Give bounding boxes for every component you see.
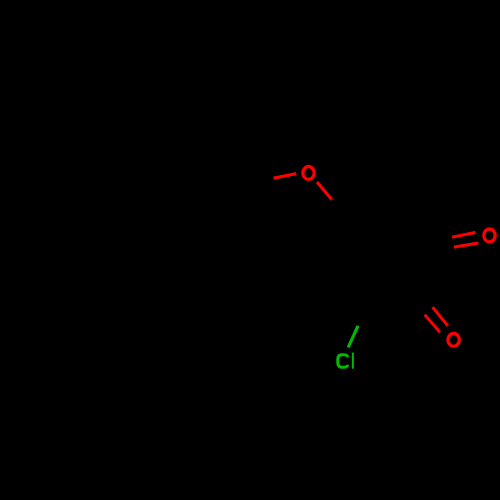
top carbonyl C=O double bond, line 2 xyxy=(454,243,479,247)
atom O (methoxy oxygen) xyxy=(303,167,314,180)
bond C-Cl (Cl half) xyxy=(348,326,358,348)
bond O-C3 ring (O half) xyxy=(317,182,332,200)
top carbonyl C=O double bond, line 1 xyxy=(452,232,475,237)
atom label Cl : letter l xyxy=(352,353,354,369)
atom O (bottom carbonyl oxygen) xyxy=(448,333,459,346)
atom label Cl : letter C xyxy=(338,355,348,368)
atom O (top carbonyl oxygen) xyxy=(484,229,495,242)
bottom carbonyl C=O double bond, line 2 xyxy=(433,307,448,326)
bottom carbonyl C=O double bond, line 1 xyxy=(425,315,440,333)
bond CH3-O methoxy (O half) xyxy=(274,174,297,179)
